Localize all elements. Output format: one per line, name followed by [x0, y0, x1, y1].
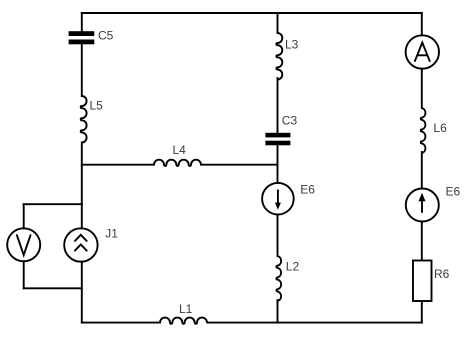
wire middle vertical C3 to E6	[277, 146, 279, 184]
svg-text:L1: L1	[179, 302, 193, 316]
wire middle vertical L3 to C3	[277, 78, 279, 133]
wire right vertical ammeter to L6	[421, 69, 423, 108]
wire voltmeter branch top	[24, 203, 82, 205]
wire left vertical J1 to bottom	[81, 262, 83, 323]
svg-text:L5: L5	[90, 99, 104, 113]
svg-text:L4: L4	[173, 143, 187, 157]
wire left vertical L5 to J1	[81, 143, 83, 229]
svg-text:E6: E6	[300, 182, 315, 196]
inductor L5	[81, 96, 103, 143]
svg-text:L6: L6	[433, 121, 447, 135]
ammeter A	[406, 35, 439, 68]
capacitor C3	[265, 113, 297, 145]
wire middle vertical E6 to L2	[277, 215, 279, 257]
wire middle vertical top to L3	[277, 13, 279, 33]
voltmeter V	[7, 228, 40, 261]
inductor L6	[421, 108, 447, 153]
wire voltmeter branch bottom	[24, 287, 82, 289]
svg-text:L3: L3	[285, 38, 299, 52]
source E6 (middle, arrow down)	[262, 182, 315, 214]
svg-text:C5: C5	[98, 28, 114, 42]
wire voltmeter branch left lower	[23, 261, 25, 288]
wire middle vertical L2 to bottom	[277, 300, 279, 323]
wire middle horizontal left segment (node to L4)	[82, 164, 154, 166]
inductor L2	[276, 256, 299, 301]
source E6 (right, arrow up)	[406, 184, 461, 221]
svg-text:R6: R6	[434, 267, 450, 281]
current source J1	[64, 227, 118, 262]
inductor L1	[160, 302, 207, 324]
wire right vertical E6 to R6	[421, 222, 423, 261]
wire right vertical top to ammeter	[421, 13, 423, 35]
svg-text:J1: J1	[105, 227, 118, 241]
wire middle horizontal right segment (L4 to middle node)	[201, 164, 278, 166]
wire left vertical top (top to C5)	[81, 13, 83, 31]
wire bottom horizontal left segment	[82, 322, 160, 324]
wire bottom horizontal right segment	[208, 322, 422, 324]
capacitor C5	[69, 28, 114, 44]
inductor L3	[276, 33, 298, 80]
wire voltmeter branch left upper	[23, 204, 25, 228]
svg-text:C3: C3	[282, 113, 298, 127]
svg-text:E6: E6	[446, 184, 461, 198]
wire left vertical C5 to L5	[81, 44, 83, 96]
inductor L4	[154, 143, 201, 166]
wire right vertical L6 to E6	[421, 152, 423, 189]
wire top horizontal	[82, 12, 422, 14]
svg-text:L2: L2	[286, 260, 300, 274]
wire right vertical R6 to bottom	[421, 301, 423, 323]
resistor R6	[413, 261, 450, 302]
